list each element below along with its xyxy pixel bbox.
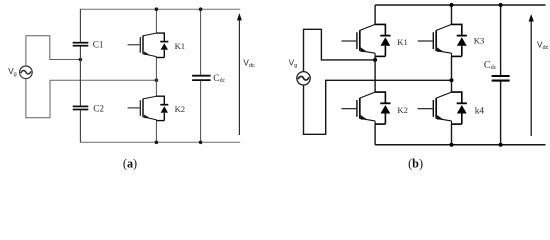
bottom rail (b) [375, 144, 545, 146]
junction dot right leg midpoint (b) [450, 78, 454, 82]
svg-text:Vdc: Vdc [243, 59, 255, 69]
svg-text:C1: C1 [93, 40, 104, 50]
AC source Vg (a) [20, 66, 33, 79]
capacitor C2 [73, 106, 89, 109]
svg-text:K2: K2 [397, 105, 408, 115]
junction dot switch midpoint (a) [155, 78, 159, 82]
junction dot top rail at Cdc leg (b) [499, 3, 503, 7]
top rail (a) [80, 8, 240, 10]
capacitor leg wire (a) [79, 9, 81, 142]
capacitor Cdc (a) [192, 76, 211, 80]
anti-parallel diode of K2 (b) [375, 92, 390, 124]
svg-text:K3: K3 [474, 35, 485, 45]
junction dot bottom rail at Cdc leg (a) [199, 141, 203, 145]
capacitor Cdc (b) [492, 76, 510, 81]
DC-link capacitor leg wire (b) [500, 5, 502, 145]
svg-text:(a): (a) [123, 157, 137, 171]
junction dot bottom rail at Cdc leg (b) [499, 143, 503, 147]
svg-text:K1: K1 [175, 41, 186, 51]
wire Vg top to left leg midpoint (b) [304, 29, 376, 71]
anti-parallel diode of K1 (a) [156, 33, 168, 57]
DC-link capacitor leg wire (a) [200, 9, 202, 142]
svg-text:k4: k4 [475, 107, 485, 117]
right leg wire (b) [451, 5, 453, 145]
anti-parallel diode of K4 (b) [452, 92, 467, 124]
wire Vg bottom to switch midpoint (a) [26, 79, 157, 118]
top rail (b) [375, 4, 545, 6]
IGBT K2 (b) [342, 92, 376, 124]
junction dot top rail at Cdc leg (a) [199, 7, 203, 11]
anti-parallel diode of K2 (a) [156, 96, 168, 120]
IGBT K2 (a) [128, 96, 157, 120]
switch leg wire (a) [155, 9, 157, 142]
IGBT K4 (b) [418, 92, 452, 124]
svg-text:Cdc: Cdc [484, 60, 497, 71]
junction dot left leg midpoint (b) [373, 58, 377, 62]
svg-text:(b): (b) [408, 157, 423, 171]
anti-parallel diode of K3 (b) [452, 24, 467, 56]
svg-text:C2: C2 [93, 103, 104, 113]
junction dot capacitor midpoint (a) [79, 58, 83, 62]
svg-text:K2: K2 [175, 104, 186, 114]
svg-text:K1: K1 [397, 37, 408, 47]
IGBT K1 (a) [128, 33, 157, 57]
anti-parallel diode of K1 (b) [375, 24, 390, 56]
svg-text:Cdc: Cdc [213, 74, 225, 84]
Vdc measurement arrow (a) [237, 13, 242, 135]
capacitor C1 [73, 43, 89, 46]
IGBT K1 (b) [342, 24, 376, 56]
junction dot bottom rail at right leg (b) [450, 143, 454, 147]
svg-text:Vdc: Vdc [537, 41, 549, 51]
svg-text:Vg: Vg [289, 59, 297, 70]
AC source Vg (b) [297, 72, 310, 85]
junction dot top rail at right leg (b) [450, 3, 454, 7]
IGBT K3 (b) [418, 24, 452, 56]
bottom rail (a) [80, 141, 240, 143]
wire Vg top to capacitor midpoint (a) [26, 36, 81, 66]
Vdc measurement arrow (b) [529, 14, 534, 136]
wire Vg bottom to right leg midpoint (b) [304, 80, 452, 134]
junction dot bottom rail at switch leg (a) [155, 141, 159, 145]
svg-text:Vg: Vg [8, 67, 16, 78]
left leg wire (b) [374, 5, 376, 145]
junction dot top rail at switch leg (a) [155, 7, 159, 11]
